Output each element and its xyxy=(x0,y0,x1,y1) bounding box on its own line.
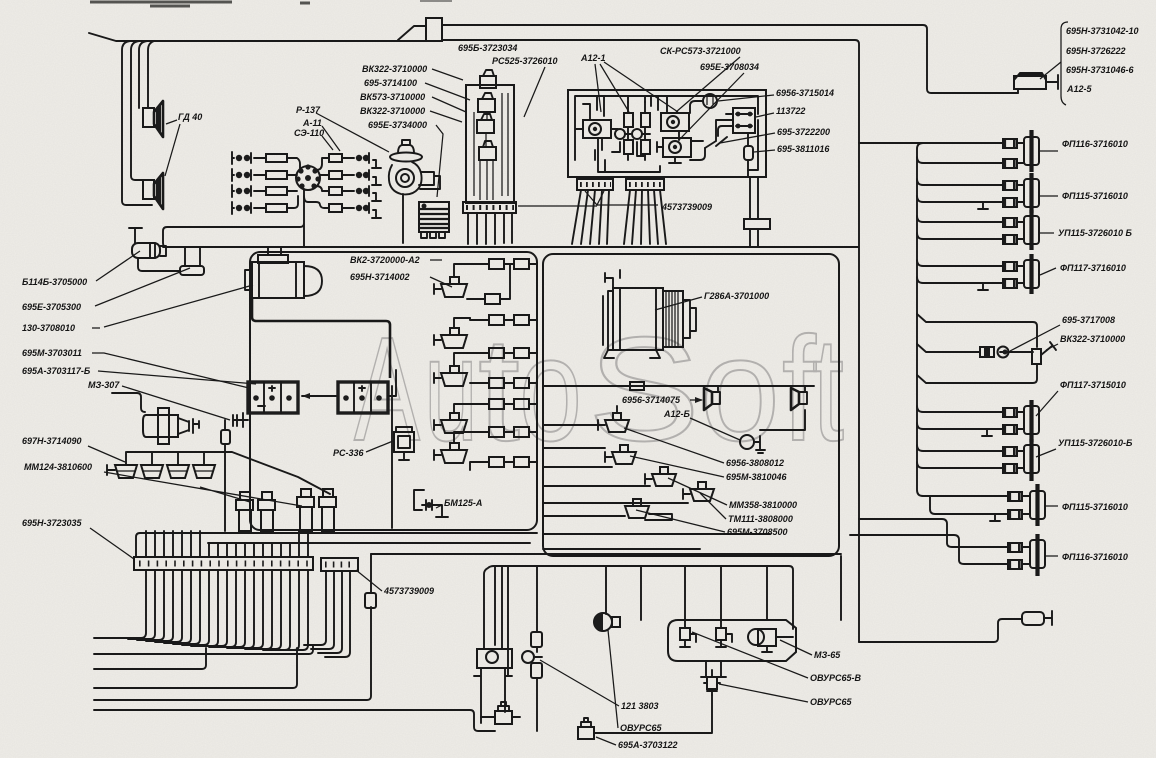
connector strip bottom 2 xyxy=(321,558,358,571)
switch loop 695-3717008 xyxy=(917,314,1056,383)
connector pair row5 xyxy=(470,378,537,388)
leader xyxy=(1040,268,1056,275)
main horizontal bus y246 xyxy=(163,246,858,248)
sensor cup row1 xyxy=(434,277,467,297)
bus across right box xyxy=(543,385,814,387)
leader xyxy=(98,371,256,384)
svg-text:697Н-3714090: 697Н-3714090 xyxy=(22,436,82,446)
leader SK xyxy=(676,57,740,112)
connector pair row7 xyxy=(489,427,537,437)
sensor cup row5 xyxy=(434,432,489,463)
svg-text:695Н-3723035: 695Н-3723035 xyxy=(22,518,83,528)
svg-text:121 3803: 121 3803 xyxy=(621,701,659,711)
flasher xyxy=(594,613,620,631)
leader xyxy=(540,660,619,706)
svg-text:ОВУРС65: ОВУРС65 xyxy=(810,697,853,707)
leaders A12-1 xyxy=(595,62,678,112)
voltage regulator RR (695E-3734000) xyxy=(419,202,449,238)
bundle below strip to left rail xyxy=(94,570,308,650)
svg-text:695Б-3723034: 695Б-3723034 xyxy=(458,43,517,53)
svg-text:4573739009: 4573739009 xyxy=(383,586,434,596)
fuse box left tall xyxy=(466,70,514,203)
top bus wire upper xyxy=(398,25,1018,93)
bottom right rounded box xyxy=(668,620,796,661)
svg-text:ММ124-3810600: ММ124-3810600 xyxy=(24,462,92,472)
right lamp feed bus xyxy=(917,143,923,496)
V leader under strip A xyxy=(518,191,658,206)
leader xyxy=(668,478,727,505)
sensor r3 MM358 xyxy=(645,467,676,486)
svg-text:ВК322-3710000: ВК322-3710000 xyxy=(1060,334,1125,344)
connector pair row3 xyxy=(470,315,537,325)
stack capsule 2 xyxy=(531,663,542,731)
leader arrow xyxy=(690,399,702,401)
wires lamp7/8 join left rails xyxy=(850,519,1022,642)
central relay box outline xyxy=(568,90,766,177)
leader xyxy=(719,684,808,702)
bundle strip2 below xyxy=(304,571,350,657)
leader xyxy=(690,418,740,440)
leader xyxy=(720,133,775,143)
svg-text:695М-3810046: 695М-3810046 xyxy=(726,472,788,482)
connector pair row8 xyxy=(470,457,537,470)
svg-text:695А-3703122: 695А-3703122 xyxy=(618,740,678,750)
connector under right relays xyxy=(744,219,770,229)
svg-text:СЭ-110: СЭ-110 xyxy=(294,128,324,138)
end capsule bottom right xyxy=(1022,611,1052,625)
svg-text:А12-Б: А12-Б xyxy=(663,409,691,419)
speaker GD40 upper xyxy=(143,101,163,137)
lamp UP115 no6 xyxy=(917,439,1039,481)
sender plugs group xyxy=(236,489,336,531)
svg-text:695Е-3734000: 695Е-3734000 xyxy=(368,120,427,130)
svg-text:695-3811016: 695-3811016 xyxy=(777,144,830,154)
svg-text:СК-РС573-3721000: СК-РС573-3721000 xyxy=(660,46,741,56)
top bus wire lower xyxy=(89,33,859,642)
sensor cup row2 xyxy=(434,318,470,348)
switch contact 695-3722200 xyxy=(705,120,733,148)
svg-text:РС525-3726010: РС525-3726010 xyxy=(492,56,558,66)
leader GD40 xyxy=(165,120,180,176)
indicator circle with cross xyxy=(690,94,717,113)
wire horn2 to lamp xyxy=(760,410,805,430)
right relay box wires down xyxy=(750,177,758,246)
svg-text:ГД 40: ГД 40 xyxy=(178,112,202,122)
leader xyxy=(436,505,442,508)
connector X1 on top bus xyxy=(426,18,442,41)
wires strip B down fan xyxy=(624,190,666,244)
svg-text:113722: 113722 xyxy=(776,106,805,116)
svg-text:БМ125-А: БМ125-А xyxy=(444,498,482,508)
svg-text:ВК573-3710000: ВК573-3710000 xyxy=(360,92,425,102)
leader 695E-3708034 xyxy=(679,73,744,140)
leader xyxy=(1046,344,1058,350)
svg-text:А-11: А-11 xyxy=(302,118,322,128)
fuse F1 xyxy=(624,102,633,134)
distributor R-137 xyxy=(295,164,320,190)
connector pair row1 xyxy=(454,259,537,277)
svg-text:o: o xyxy=(700,307,780,472)
fuse block 113722 xyxy=(718,108,755,136)
capsule 695-3811016 xyxy=(744,133,753,177)
lamp FP115 no2 xyxy=(917,173,1039,213)
bottom relay 695A-3703122 xyxy=(578,695,712,739)
svg-text:695М-3703011: 695М-3703011 xyxy=(22,348,82,358)
svg-text:УП115-3726010-Б: УП115-3726010-Б xyxy=(1058,438,1133,448)
svg-text:ФП115-3716010: ФП115-3716010 xyxy=(1062,191,1128,201)
svg-text:695-3714100: 695-3714100 xyxy=(364,78,417,88)
left vertical wire bundle xyxy=(122,41,152,205)
leader xyxy=(754,150,775,152)
starter wires xyxy=(268,247,281,255)
right box left-edge wire entries xyxy=(543,425,770,549)
svg-text:А12-1: А12-1 xyxy=(580,53,606,63)
svg-text:ММ358-3810000: ММ358-3810000 xyxy=(729,500,797,510)
svg-text:Г286А-3701000: Г286А-3701000 xyxy=(704,291,769,301)
leader xyxy=(700,493,726,519)
battery 1 xyxy=(248,382,298,413)
leader xyxy=(88,446,125,462)
leader xyxy=(90,528,134,559)
stub box below xyxy=(701,661,726,677)
lower bus lines xyxy=(140,533,841,554)
svg-text:4573739009: 4573739009 xyxy=(661,202,712,212)
svg-text:695Н-3731046-6: 695Н-3731046-6 xyxy=(1066,65,1135,75)
sensor r2 695M-3810046 xyxy=(605,445,636,464)
svg-text:695Е-3708034: 695Е-3708034 xyxy=(700,62,759,72)
fuse F4 xyxy=(641,134,650,160)
leader xyxy=(366,441,393,452)
svg-text:ФП115-3716010: ФП115-3716010 xyxy=(1062,502,1128,512)
leader xyxy=(655,297,702,310)
stack capsule 1 xyxy=(531,632,542,652)
lamp FP115 no7 xyxy=(923,484,1045,526)
leader xyxy=(692,632,808,678)
wire plug matrix to bus xyxy=(163,189,304,247)
MZ-307 heater motor xyxy=(112,393,199,444)
svg-text:695А-3703117-Б: 695А-3703117-Б xyxy=(22,366,91,376)
svg-text:6956-3808012: 6956-3808012 xyxy=(726,458,784,468)
fuse box wires to bus xyxy=(468,213,512,244)
leader xyxy=(96,251,140,281)
svg-text:ОВУРС65-В: ОВУРС65-В xyxy=(810,673,862,683)
lamp A12-5 xyxy=(1014,73,1058,93)
leader A12-5 xyxy=(1040,62,1061,79)
leader xyxy=(430,277,452,287)
svg-text:130-3708010: 130-3708010 xyxy=(22,323,75,333)
relay K3 xyxy=(657,138,691,163)
circle small xyxy=(522,651,542,663)
indicator lamp A12-B xyxy=(740,435,765,453)
lamp FP116 no1 xyxy=(917,130,1039,172)
motor MZ-65 xyxy=(748,629,793,652)
battery2 out wire xyxy=(388,370,396,396)
left big box outline xyxy=(250,252,537,530)
lamp UP115 no3 xyxy=(917,210,1039,250)
svg-text:ФП116-3716010: ФП116-3716010 xyxy=(1062,139,1128,149)
sensor r5 695M-3708500 xyxy=(625,499,672,520)
svg-text:6956-3714075: 6956-3714075 xyxy=(622,395,681,405)
svg-text:695Н-3726222: 695Н-3726222 xyxy=(1066,46,1126,56)
svg-text:ФП117-3715010: ФП117-3715010 xyxy=(1060,380,1126,390)
paper noise xyxy=(0,0,1,1)
sensor cup row3 xyxy=(434,353,467,386)
leader xyxy=(636,510,725,532)
capsule on bus xyxy=(630,382,644,390)
inner wire comb central box xyxy=(597,96,660,172)
sensor b1 xyxy=(680,621,696,647)
bottom centre feed bus xyxy=(484,556,841,675)
svg-text:ВК322-3710000: ВК322-3710000 xyxy=(360,106,425,116)
inner wires central box xyxy=(575,96,758,170)
svg-text:695-3717008: 695-3717008 xyxy=(1062,315,1115,325)
leader xyxy=(596,737,616,745)
starter to battery cable xyxy=(252,298,390,378)
svg-text:ОВУРС65: ОВУРС65 xyxy=(620,723,663,733)
connector pair row4 xyxy=(467,348,537,358)
svg-text:695-3722200: 695-3722200 xyxy=(777,127,830,137)
connector strip A xyxy=(577,179,613,190)
long vertical x371 xyxy=(94,554,371,700)
leader xyxy=(608,630,618,728)
leader RS525 xyxy=(524,67,545,117)
lamp FP116 no8 xyxy=(864,519,1045,576)
battery 2 xyxy=(338,382,388,413)
svg-text:ФП117-3716010: ФП117-3716010 xyxy=(1060,263,1126,273)
generator G286A xyxy=(603,270,696,358)
sensor b2 xyxy=(716,621,732,647)
battery link arrow xyxy=(302,395,336,397)
leader xyxy=(92,285,253,328)
leader xyxy=(1044,555,1058,557)
svg-text:Б114Б-3705000: Б114Б-3705000 xyxy=(22,277,87,287)
left horizontal rails xyxy=(94,645,313,688)
relay K1 xyxy=(583,104,611,160)
connector strip bottom 1 xyxy=(134,557,313,570)
scan edge marks xyxy=(90,2,310,6)
leader xyxy=(92,353,249,388)
ignition spark plug rows left xyxy=(232,152,300,214)
svg-text:ВК2-3720000-А2: ВК2-3720000-А2 xyxy=(350,255,420,265)
wire from x859 to x917 top xyxy=(859,142,917,144)
heater plugs bus xyxy=(127,452,330,494)
bracket for A12-5 labels xyxy=(1061,22,1068,105)
svg-text:ТМ111-3808000: ТМ111-3808000 xyxy=(728,514,793,524)
sensor r1 6956-3808012 xyxy=(598,406,629,432)
button circles xyxy=(615,129,625,139)
leader xyxy=(780,640,812,655)
svg-text:695Н-3714002: 695Н-3714002 xyxy=(350,272,410,282)
gauge box bottom xyxy=(474,649,512,723)
watermark AutoSoft xyxy=(354,307,844,472)
ignition coil B114 xyxy=(129,228,166,258)
leader xyxy=(1040,150,1058,152)
add resistor SE xyxy=(138,248,204,275)
leader xyxy=(1040,232,1054,234)
right big box outline xyxy=(543,254,839,556)
fuse BM125-A xyxy=(414,490,448,517)
svg-text:6956-3715014: 6956-3715014 xyxy=(776,88,834,98)
small capsule connector xyxy=(221,420,230,531)
sensor cup row4 xyxy=(434,404,489,433)
svg-text:МЗ-307: МЗ-307 xyxy=(88,380,120,390)
leaders ignition labels xyxy=(316,113,389,152)
fuse F2 xyxy=(641,102,650,134)
leader xyxy=(1036,391,1058,416)
fuse box connector strip xyxy=(463,202,516,213)
svg-text:ФП116-3716010: ФП116-3716010 xyxy=(1062,552,1128,562)
leader xyxy=(1036,449,1056,457)
speaker GD40 lower xyxy=(143,173,163,209)
dash after VK2 label xyxy=(430,259,442,261)
svg-text:МЗ-65: МЗ-65 xyxy=(814,650,841,660)
connector strip B xyxy=(626,179,664,190)
fuse F3 xyxy=(624,134,633,160)
leader xyxy=(1040,195,1058,197)
leader xyxy=(1044,505,1058,507)
sensor r4 TM111 xyxy=(683,482,714,501)
RS-336 relay xyxy=(392,386,414,528)
leader xyxy=(356,570,382,591)
relay K2 xyxy=(661,100,689,140)
connector left of battery xyxy=(233,413,248,427)
leader xyxy=(756,113,774,117)
leader xyxy=(122,386,230,420)
svg-text:ВК322-3710000: ВК322-3710000 xyxy=(362,64,427,74)
horn 1 xyxy=(704,386,720,410)
connector pair row2 xyxy=(467,264,510,304)
leader xyxy=(624,428,724,463)
heater plugs 695N-3714090 xyxy=(107,452,215,478)
svg-text:t: t xyxy=(478,307,520,472)
svg-text:А12-5: А12-5 xyxy=(1066,84,1093,94)
connector pair row6 xyxy=(489,399,537,409)
relay left bottom xyxy=(481,702,520,724)
leader xyxy=(630,456,724,477)
svg-text:695Е-3705300: 695Е-3705300 xyxy=(22,302,81,312)
svg-text:695Н-3731042-10: 695Н-3731042-10 xyxy=(1066,26,1139,36)
ignition spark plug rows right xyxy=(304,153,381,218)
stub capsule OVURS65 xyxy=(704,670,720,695)
lamp FP117 no4 xyxy=(917,254,1039,294)
svg-text:УП115-3726010 Б: УП115-3726010 Б xyxy=(1058,228,1132,238)
leader xyxy=(1010,325,1060,351)
coil wire down to bus xyxy=(402,194,404,243)
leader xyxy=(95,268,190,306)
wires strip A down fan xyxy=(572,190,609,244)
ignition coil R-117 assembly xyxy=(389,140,440,194)
leaders fuse labels xyxy=(425,69,470,197)
svg-text:РС-336: РС-336 xyxy=(333,448,365,458)
horn 2 xyxy=(791,386,807,410)
connector capsule on x371 xyxy=(365,593,376,608)
bottom-left wire bundle verticals xyxy=(136,531,308,557)
leader xyxy=(104,472,302,506)
lamp FP117 no5 xyxy=(917,400,1039,442)
bottom left horizontals to edge xyxy=(94,710,495,731)
svg-text:695М-3708500: 695М-3708500 xyxy=(727,527,788,537)
leader xyxy=(718,95,774,101)
starter ST130 xyxy=(245,255,322,298)
